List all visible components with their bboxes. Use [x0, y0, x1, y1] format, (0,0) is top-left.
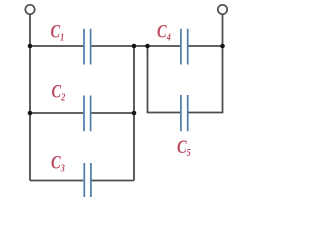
capacitor C4 (plates) [181, 29, 188, 65]
wire: right terminal stem [222, 14, 224, 46]
capacitor C2 (plates) [84, 96, 91, 132]
node A (junction dot top-left) [28, 44, 33, 49]
wire: top bus middle segment (C1 right plate to C4 left plate) [91, 45, 180, 47]
node D (junction dot top-right) [220, 44, 225, 49]
svg-text:C5: C5 [177, 136, 191, 159]
wire: C5 loop bottom-left segment [147, 112, 180, 114]
wire: C3 bottom left segment [30, 180, 83, 182]
node E (junction dot C2 left) [28, 111, 33, 116]
wire: middle rail [133, 46, 135, 181]
terminal (top-left open circle) [25, 5, 34, 14]
svg-text:C3: C3 [51, 152, 65, 175]
wire: C5 loop bottom-right segment [189, 112, 223, 114]
wire: top bus left segment (node A to C1 left plate) [30, 45, 83, 47]
node C (junction dot top bus x=147.5) [145, 44, 150, 49]
svg-text:C4: C4 [157, 20, 171, 43]
wire: C2 branch right segment [91, 112, 134, 114]
wire: C3 bottom right segment [91, 180, 134, 182]
svg-text:C2: C2 [52, 80, 66, 103]
wire: C5 loop left drop [147, 46, 149, 113]
capacitor C3 (plates) [84, 163, 91, 197]
wire: left rail [29, 46, 31, 181]
terminal (top-right open circle) [218, 5, 227, 14]
wire: left terminal stem [29, 14, 31, 46]
capacitor C1 (plates) [84, 29, 91, 65]
capacitor C5 (plates) [181, 95, 188, 131]
node B (junction dot top bus x=134) [132, 44, 137, 49]
wire: C5 loop right riser [222, 46, 224, 113]
wire: C2 branch left segment [30, 112, 83, 114]
svg-text:C1: C1 [51, 20, 65, 43]
wire: top bus right segment (C4 right plate to node D) [189, 45, 223, 47]
node F (junction dot C2 right) [132, 111, 137, 116]
